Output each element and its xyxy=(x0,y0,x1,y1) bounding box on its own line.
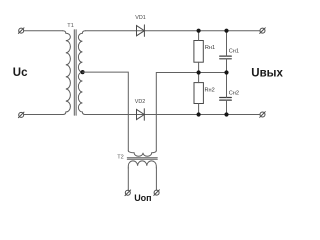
wire T2 secondary right lead xyxy=(155,168,157,190)
wire top rail: T1 secondary to VD1 to top-right terminal xyxy=(85,30,260,32)
junction top rail / C column xyxy=(224,29,228,33)
diode VD2 xyxy=(137,109,145,121)
svg-text:T2: T2 xyxy=(117,155,124,161)
svg-text:VD1: VD1 xyxy=(135,15,146,21)
transformer T1 secondary winding lower half xyxy=(78,72,85,114)
svg-text:Uвых: Uвых xyxy=(251,67,283,79)
terminal U&#1086;&#1087; right xyxy=(154,190,160,196)
wire top-left: terminal to T1 primary xyxy=(24,30,63,32)
resistor R&#1085;2 xyxy=(194,83,203,104)
terminal output top-right xyxy=(260,28,266,34)
wire resistor column xyxy=(198,31,200,115)
wire middle rail: T2 right drop up and right to capacitor column xyxy=(156,73,226,151)
wire bottom-left: terminal to T1 primary xyxy=(24,114,63,116)
svg-text:Uоп: Uоп xyxy=(134,193,151,203)
svg-text:VD2: VD2 xyxy=(135,99,146,105)
transformer T1 primary winding xyxy=(63,31,71,115)
junction top rail / R column xyxy=(197,29,201,33)
wire bottom rail: T1 secondary bottom through VD2 to bottom-right terminal xyxy=(85,114,260,116)
transformer T1 core xyxy=(74,30,76,116)
junction middle rail / R column xyxy=(197,70,201,74)
wire T2 secondary left lead xyxy=(127,168,129,190)
junction middle rail / C column xyxy=(224,70,228,74)
svg-text:Cн2: Cн2 xyxy=(229,91,239,97)
resistor R&#1085;1 xyxy=(194,41,203,63)
svg-text:T1: T1 xyxy=(67,23,74,29)
transformer T2 primary winding (top, fed from center tap) xyxy=(128,151,156,157)
capacitor C&#1085;1 xyxy=(220,56,232,59)
svg-text:Uc: Uc xyxy=(13,67,28,79)
terminal input top-left xyxy=(18,28,24,34)
diode VD1 xyxy=(137,25,145,37)
svg-text:Cн1: Cн1 xyxy=(229,49,239,55)
junction bottom rail / R column xyxy=(197,112,201,116)
transformer T1 secondary winding upper half xyxy=(78,31,85,72)
transformer T2 core xyxy=(127,158,157,160)
junction bottom rail / C column xyxy=(224,112,228,116)
junction center tap of T1 xyxy=(81,70,85,74)
svg-text:Rн1: Rн1 xyxy=(205,45,215,51)
terminal output bottom-right xyxy=(260,112,266,118)
wire capacitor column xyxy=(226,31,228,115)
transformer T2 secondary winding (bottom) xyxy=(128,161,156,168)
capacitor C&#1085;2 xyxy=(220,98,232,101)
terminal U&#1086;&#1087; left xyxy=(125,190,131,196)
svg-text:Rн2: Rн2 xyxy=(205,87,215,93)
wire center tap to T2 (left drop) xyxy=(83,72,129,151)
terminal input bottom-left xyxy=(18,112,24,118)
